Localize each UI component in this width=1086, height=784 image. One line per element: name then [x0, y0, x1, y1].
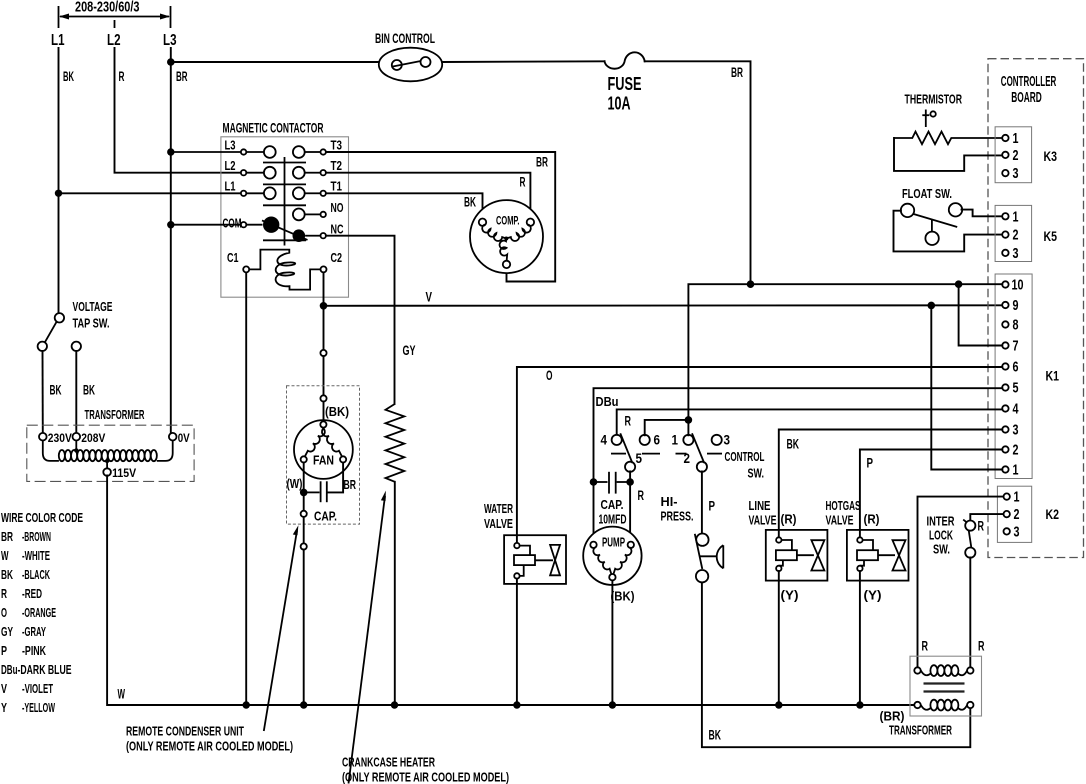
svg-text:FUSE: FUSE — [608, 74, 642, 94]
svg-text:8: 8 — [1013, 318, 1019, 334]
winding bottom — [500, 239, 508, 262]
contactor L1 row — [59, 179, 343, 200]
svg-text:(BR): (BR) — [880, 709, 905, 724]
position bar 4/5 — [611, 453, 626, 455]
contactor linkage bar 3 — [263, 204, 306, 206]
svg-text:115V: 115V — [112, 466, 136, 480]
svg-text:R: R — [119, 69, 125, 84]
control switch CONTROL SW. — [601, 416, 731, 472]
svg-text:VOLTAGE: VOLTAGE — [73, 299, 113, 314]
label CONTROLLER BOARD — [1001, 74, 1057, 106]
svg-text:SW.: SW. — [933, 542, 950, 557]
svg-text:(Y): (Y) — [781, 588, 799, 603]
svg-text:VALVE: VALVE — [484, 516, 513, 531]
svg-text:VALVE: VALVE — [749, 513, 777, 528]
wire T3 to compressor BR — [326, 152, 555, 282]
svg-text:3: 3 — [1013, 246, 1019, 262]
svg-text:6: 6 — [1013, 360, 1019, 376]
svg-text:0V: 0V — [178, 431, 190, 445]
svg-text:CAP.: CAP. — [601, 497, 624, 512]
wire contact6 to R node — [645, 420, 689, 435]
junction BR/pin10 line — [747, 280, 755, 288]
svg-text:L3: L3 — [163, 32, 177, 49]
wire V node down to fan — [323, 306, 325, 350]
wire branch to pin7 — [959, 284, 1003, 345]
svg-text:-RED: -RED — [22, 586, 42, 601]
svg-text:R: R — [625, 414, 632, 429]
wire pin10 line — [688, 284, 1002, 420]
junction L3/contactor-L3 row — [167, 148, 174, 155]
bin control switch — [379, 48, 442, 82]
svg-text:2: 2 — [1014, 507, 1020, 523]
wire T2 to compressor R — [326, 173, 531, 219]
svg-text:L1: L1 — [225, 179, 236, 194]
connector K2 — [997, 486, 1031, 542]
svg-text:4: 4 — [1013, 402, 1019, 418]
svg-text:L2: L2 — [107, 32, 121, 49]
wire interlock to transformer — [969, 557, 971, 667]
svg-text:7: 7 — [1013, 339, 1019, 355]
winding left — [482, 225, 506, 241]
svg-text:BK: BK — [709, 728, 722, 743]
svg-text:Y: Y — [1, 700, 7, 715]
hotgas valve V3 — [847, 530, 909, 581]
contactor terminal C2 — [321, 250, 343, 272]
wire branch to pin1 — [931, 305, 1002, 469]
fan capacitor — [304, 481, 327, 502]
junction cap right R — [626, 478, 634, 486]
thermistor return loop to K3 pin2 — [894, 138, 1002, 171]
fan winding right — [322, 428, 342, 456]
svg-text:-ORANGE: -ORANGE — [22, 605, 56, 620]
svg-text:-VIOLET: -VIOLET — [22, 681, 53, 696]
svg-text:L2: L2 — [225, 158, 236, 173]
junction line valve/bottom — [775, 701, 782, 708]
svg-text:L1: L1 — [51, 32, 65, 49]
compressor COMP — [470, 200, 543, 273]
junction pump/bottom — [609, 701, 616, 708]
junction water valve/bottom — [513, 701, 520, 708]
wire plug to fan pin — [323, 402, 325, 422]
svg-text:PRESS.: PRESS. — [661, 509, 694, 524]
wire K2 pin2 to interlock — [970, 514, 1003, 521]
svg-text:NO: NO — [331, 200, 344, 215]
wire tap 230V — [42, 351, 44, 433]
svg-text:2: 2 — [1013, 443, 1019, 459]
svg-text:-BROWN: -BROWN — [22, 529, 51, 544]
junction C2/V wire — [320, 302, 328, 310]
wire BK net to K1 pin3 — [779, 430, 1003, 538]
wire hotgas valve to bottom — [859, 571, 861, 705]
svg-text:V: V — [1, 681, 7, 696]
transformer primary winding — [43, 440, 173, 461]
svg-text:(R): (R) — [864, 512, 880, 527]
svg-text:230V: 230V — [48, 431, 72, 445]
remote condenser dashed box — [287, 386, 360, 524]
svg-text:1: 1 — [1013, 131, 1019, 147]
svg-text:2: 2 — [1013, 148, 1019, 164]
contactor linkage bar 1 — [263, 162, 306, 164]
contact 3 — [712, 435, 722, 445]
wire cap left to pump — [593, 482, 595, 542]
junction pin7 branch — [955, 280, 963, 288]
svg-text:BOARD: BOARD — [1011, 90, 1041, 106]
connector plug circle 2 — [320, 395, 326, 401]
connector plug circle 1 — [320, 350, 326, 356]
position bar 2 — [676, 453, 687, 455]
svg-text:1: 1 — [1014, 490, 1020, 506]
junction cap left DBu — [590, 478, 598, 486]
wire V to K1 pin9 — [324, 304, 1003, 307]
contactor L3 row — [171, 138, 342, 158]
voltage tap switch — [38, 313, 81, 351]
wire R node to contact1 — [687, 420, 689, 435]
connector plug circle 4 — [301, 543, 307, 549]
svg-text:3: 3 — [724, 433, 731, 448]
svg-text:1: 1 — [1013, 463, 1019, 479]
svg-text:R: R — [638, 488, 645, 503]
svg-text:NC: NC — [331, 222, 344, 237]
svg-text:L3: L3 — [225, 138, 236, 153]
svg-text:(W): (W) — [287, 476, 303, 491]
switch arm 1-2 — [692, 433, 704, 463]
wire plug to plug — [303, 517, 305, 544]
svg-text:SW.: SW. — [748, 466, 765, 481]
svg-text:CAP.: CAP. — [314, 509, 337, 524]
svg-text:5: 5 — [636, 451, 643, 466]
svg-text:1: 1 — [1013, 209, 1019, 225]
fan winding left — [305, 428, 325, 456]
contact 6 — [640, 435, 650, 445]
svg-text:WIRE COLOR CODE: WIRE COLOR CODE — [1, 510, 83, 525]
svg-text:COM: COM — [223, 216, 242, 231]
wire C1 down to bottom wire — [245, 272, 247, 705]
svg-text:4: 4 — [601, 433, 608, 448]
svg-text:INTER: INTER — [927, 514, 955, 529]
svg-text:-BLACK: -BLACK — [22, 567, 50, 582]
transformer terminal 0V — [169, 431, 190, 445]
svg-text:LINE: LINE — [749, 498, 771, 513]
wire C2 down to V node — [323, 272, 325, 305]
wire P net to K1 pin2 — [860, 450, 1002, 538]
wire heater to bottom W wire — [394, 482, 396, 705]
svg-text:-DARK BLUE: -DARK BLUE — [18, 662, 72, 677]
wire contact2 to hi-press — [701, 471, 703, 534]
wire O net water valve to K1 pin6 — [517, 367, 1002, 543]
svg-text:(Y): (Y) — [864, 588, 882, 603]
svg-text:(ONLY REMOTE AIR COOLED MODEL): (ONLY REMOTE AIR COOLED MODEL) — [126, 739, 293, 754]
contactor L2 row — [225, 158, 343, 179]
svg-text:BK: BK — [787, 437, 800, 452]
svg-text:R: R — [1, 586, 7, 601]
svg-text:LOCK: LOCK — [929, 528, 953, 543]
svg-text:C2: C2 — [331, 250, 343, 265]
wire fuse to BR corner — [645, 61, 751, 284]
pump winding left — [593, 547, 611, 574]
wire fan right pin down to cap — [328, 463, 343, 493]
wire W lead to bottom wire — [303, 550, 305, 705]
svg-text:5: 5 — [1013, 381, 1019, 397]
svg-text:(R): (R) — [781, 512, 797, 527]
svg-text:BK: BK — [83, 383, 95, 398]
svg-text:R: R — [978, 639, 985, 654]
svg-text:DBu: DBu — [1, 662, 18, 677]
svg-text:2: 2 — [1013, 228, 1019, 244]
svg-text:DBu: DBu — [596, 394, 619, 409]
svg-text:THERMISTOR: THERMISTOR — [905, 92, 963, 107]
svg-text:10A: 10A — [608, 94, 631, 114]
svg-text:BK: BK — [50, 383, 62, 398]
controller board dashed outline — [988, 59, 1084, 558]
magnetic contactor outline box — [221, 137, 349, 297]
svg-text:O: O — [1, 605, 7, 620]
wire pump to bottom wire — [611, 580, 613, 705]
wire DBu net to K1 pin5 — [594, 388, 1003, 479]
fuse element — [605, 52, 645, 68]
svg-text:P: P — [867, 456, 874, 471]
svg-text:R: R — [978, 519, 985, 534]
svg-text:O: O — [546, 368, 553, 383]
svg-text:BK: BK — [1, 567, 13, 582]
junction L1/contactor-L1 row — [55, 190, 62, 197]
svg-text:BK: BK — [464, 195, 476, 210]
svg-text:9: 9 — [1013, 298, 1019, 314]
thermistor resistor R-TH — [894, 132, 1002, 145]
wire L1 vertical BK — [58, 48, 60, 313]
svg-text:GY: GY — [1, 624, 13, 639]
contactor linkage bar 4 — [263, 239, 306, 241]
wire T1 to compressor BK — [326, 193, 483, 219]
position bar 6 — [642, 453, 660, 455]
svg-text:MAGNETIC CONTACTOR: MAGNETIC CONTACTOR — [223, 121, 324, 136]
thermistor temperature symbol — [922, 110, 936, 128]
svg-text:-YELLOW: -YELLOW — [22, 700, 55, 715]
wire bin control to fuse — [442, 60, 604, 63]
svg-text:P: P — [709, 499, 716, 514]
transformer terminal 230V — [39, 431, 72, 445]
connector K1 — [995, 274, 1032, 479]
wire tap 208V — [75, 351, 77, 433]
svg-text:10MFD: 10MFD — [599, 512, 627, 527]
legend WIRE COLOR CODE — [1, 510, 83, 715]
svg-text:CONTROL: CONTROL — [725, 449, 765, 464]
junction heater/bottom wire — [391, 701, 398, 708]
svg-text:FAN: FAN — [313, 453, 334, 468]
crankcase heater resistor — [386, 404, 405, 482]
wire L3 vertical BR — [170, 48, 172, 433]
wire float sw to K5 pin2 — [894, 211, 1003, 252]
svg-text:R: R — [520, 175, 526, 190]
junction contact1/R — [685, 416, 693, 424]
svg-text:-PINK: -PINK — [22, 643, 46, 658]
wire between plugs — [323, 356, 325, 395]
wire (W) down with plug — [303, 492, 305, 510]
svg-text:V: V — [426, 290, 433, 305]
svg-text:W: W — [1, 548, 9, 563]
svg-text:6: 6 — [654, 433, 661, 448]
svg-text:BR: BR — [344, 477, 357, 492]
wire line valve to bottom — [778, 571, 780, 705]
svg-text:(ONLY REMOTE AIR COOLED MODEL): (ONLY REMOTE AIR COOLED MODEL) — [342, 770, 509, 784]
switch arm 4-5 — [620, 433, 632, 463]
svg-text:WATER: WATER — [484, 501, 513, 516]
pump winding right — [614, 547, 632, 574]
wire BK hi-press to transformer — [702, 582, 970, 747]
svg-text:208V: 208V — [81, 431, 105, 445]
contactor NO row — [293, 200, 344, 220]
svg-text:TRANSFORMER: TRANSFORMER — [889, 723, 952, 738]
svg-text:GY: GY — [403, 343, 416, 358]
fan motor — [294, 420, 353, 479]
transformer terminal 115V — [103, 459, 136, 480]
svg-text:P: P — [1, 643, 7, 658]
svg-text:VALVE: VALVE — [826, 513, 854, 528]
svg-text:3: 3 — [1014, 524, 1020, 540]
svg-text:-WHITE: -WHITE — [22, 548, 50, 563]
svg-text:K3: K3 — [1044, 148, 1058, 164]
svg-text:PUMP: PUMP — [602, 535, 625, 550]
svg-text:FLOAT SW.: FLOAT SW. — [902, 186, 952, 201]
svg-text:CONTROLLER: CONTROLLER — [1001, 74, 1057, 90]
svg-text:(BK): (BK) — [611, 589, 635, 604]
junction L3/top wire — [167, 58, 175, 66]
water valve V1 — [504, 535, 566, 584]
contactor armature line — [284, 157, 286, 246]
capacitor CAP 10MFD — [594, 472, 631, 494]
connector K3 — [995, 127, 1032, 183]
svg-text:CRANKCASE HEATER: CRANKCASE HEATER — [342, 755, 435, 770]
svg-text:W: W — [118, 687, 126, 702]
junction fan cap left — [300, 489, 308, 497]
svg-text:TAP SW.: TAP SW. — [73, 316, 110, 331]
position bar 3 — [707, 453, 722, 455]
wire L2 vertical R — [115, 48, 241, 173]
control transformer T2 — [910, 656, 982, 716]
wire float sw to K5 pin1 — [962, 210, 1003, 217]
dimension arrow — [59, 6, 171, 28]
winding right — [506, 225, 530, 241]
wire K2 pin1 to transformer — [918, 497, 1004, 668]
wire water valve to bottom — [516, 579, 518, 705]
contactor COM contact — [171, 216, 280, 233]
junction hotgas valve/bottom — [856, 701, 863, 708]
callout arrow remote condenser — [264, 525, 299, 731]
svg-text:3: 3 — [1013, 423, 1019, 439]
svg-text:3: 3 — [1013, 166, 1019, 182]
svg-text:BR: BR — [1, 529, 13, 544]
svg-text:T1: T1 — [331, 179, 343, 194]
svg-text:TRANSFORMER: TRANSFORMER — [85, 407, 145, 422]
svg-text:(BK): (BK) — [325, 404, 349, 419]
contactor coil — [249, 250, 320, 290]
svg-text:T3: T3 — [331, 138, 343, 153]
wire W from 115V down and along bottom — [107, 476, 914, 706]
svg-text:K1: K1 — [1046, 368, 1060, 384]
svg-text:BK: BK — [63, 69, 74, 84]
interlock switch — [963, 520, 975, 558]
contactor linkage bar 2 — [263, 183, 306, 185]
wire NC to crankcase heater GY — [326, 236, 395, 404]
callout arrow crankcase heater — [349, 491, 386, 784]
wire contact5 down to cap — [629, 471, 631, 482]
svg-text:K2: K2 — [1046, 506, 1060, 522]
junction V/pin1 branch — [928, 302, 936, 310]
line valve V2 — [766, 530, 828, 581]
svg-text:HI-: HI- — [661, 494, 678, 509]
svg-text:R: R — [922, 639, 929, 654]
svg-text:K5: K5 — [1044, 228, 1058, 244]
svg-text:BR: BR — [536, 155, 548, 170]
wire R net contact4 to K1 pin4 — [617, 409, 1003, 435]
svg-text:REMOTE CONDENSER UNIT: REMOTE CONDENSER UNIT — [126, 724, 244, 739]
svg-text:208-230/60/3: 208-230/60/3 — [75, 0, 140, 16]
hi-pressure switch — [695, 534, 724, 583]
svg-text:10: 10 — [1012, 278, 1024, 294]
transformer box — [27, 425, 194, 481]
connector plug circle 3 — [301, 511, 307, 517]
junction L3/COM row — [167, 221, 174, 228]
svg-text:BR: BR — [731, 65, 743, 80]
wire cap right to pump — [629, 482, 631, 542]
svg-text:1: 1 — [672, 433, 679, 448]
contactor NC contact — [262, 220, 344, 242]
connector K5 — [995, 205, 1032, 262]
contactor terminal C1 — [227, 250, 249, 272]
wire top from L3 to bin control — [171, 61, 379, 63]
svg-text:COMP.: COMP. — [496, 214, 520, 228]
svg-text:BIN CONTROL: BIN CONTROL — [375, 31, 435, 46]
float switch — [901, 203, 962, 245]
junction fan lead/bottom wire — [300, 701, 307, 708]
svg-text:BR: BR — [176, 69, 188, 84]
junction C1/bottom wire — [243, 701, 250, 708]
pump motor — [583, 527, 641, 585]
svg-text:HOTGAS: HOTGAS — [826, 498, 861, 513]
svg-text:T2: T2 — [331, 158, 343, 173]
transformer terminal 208V — [73, 431, 106, 445]
svg-text:-GRAY: -GRAY — [22, 624, 46, 639]
svg-text:C1: C1 — [227, 250, 239, 265]
junction 208V tap on winding — [74, 440, 78, 452]
wire fan left pin down — [303, 463, 305, 493]
